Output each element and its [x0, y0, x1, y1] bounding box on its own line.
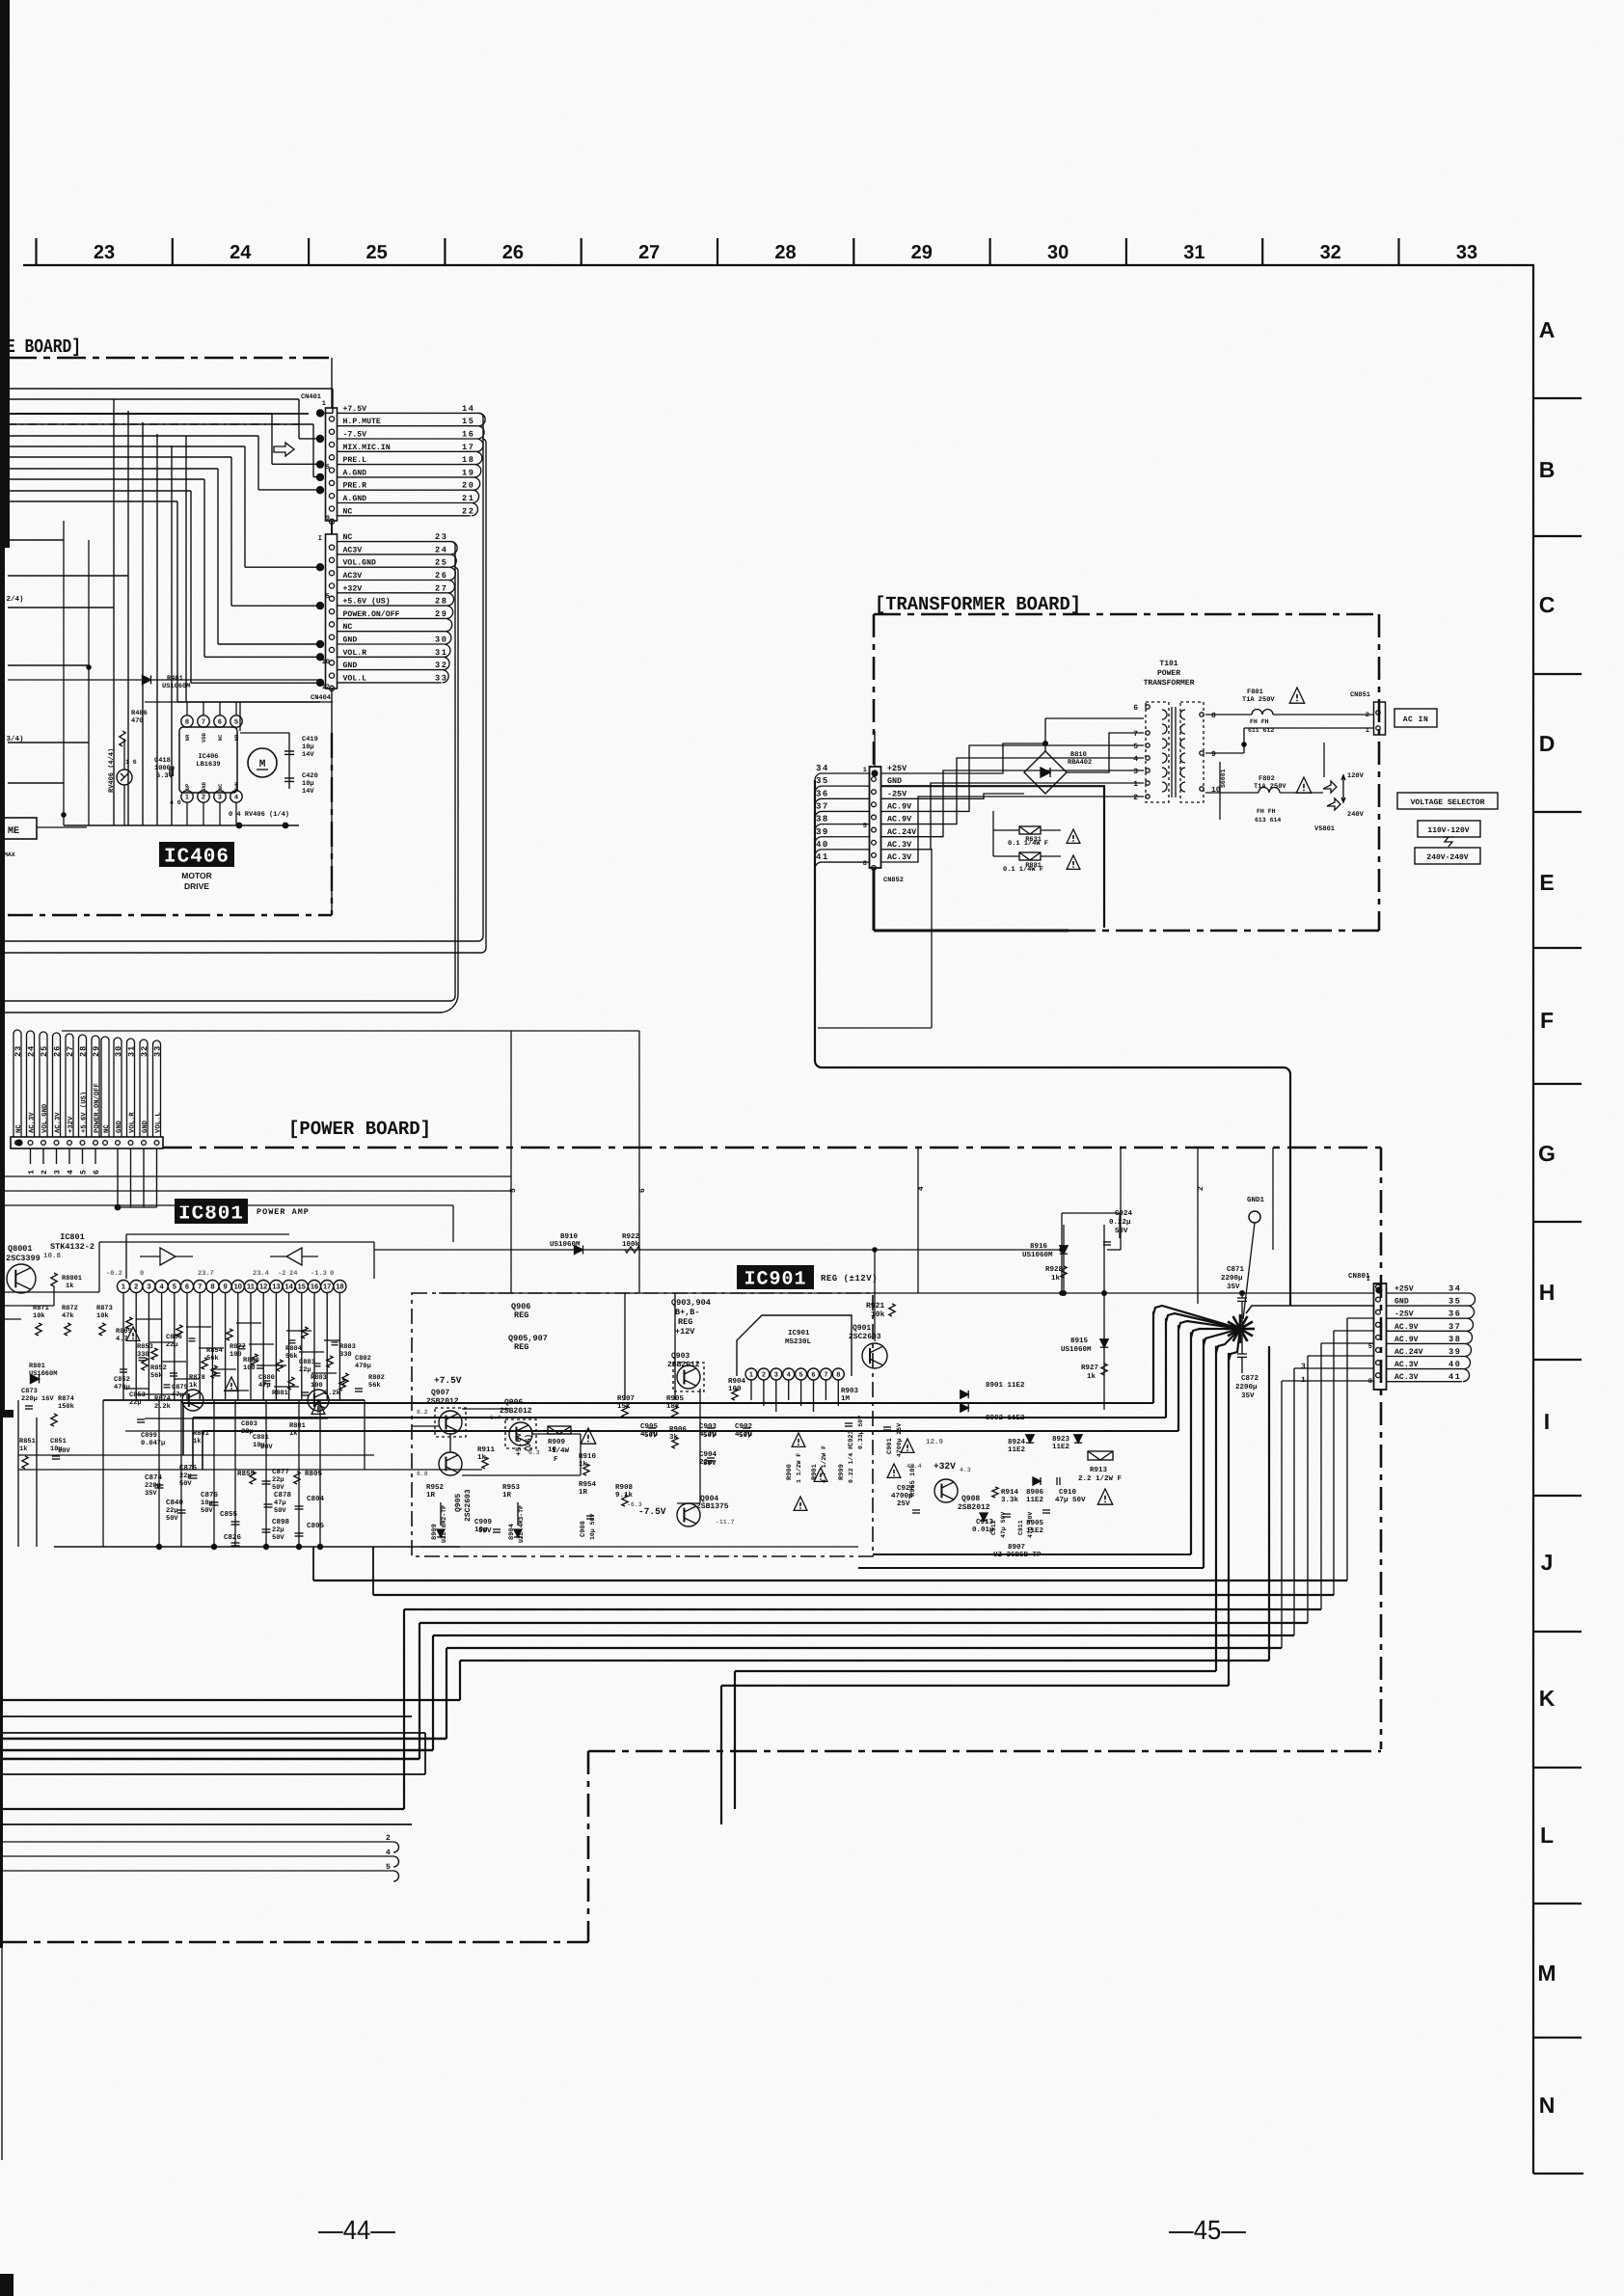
svg-text:+25V: +25V [1394, 1285, 1414, 1294]
svg-text:CN404: CN404 [311, 694, 331, 702]
svg-text:1: 1 [749, 1372, 753, 1379]
svg-text:50V: 50V [703, 1431, 717, 1440]
svg-text:AC.24V: AC.24V [1394, 1348, 1423, 1357]
svg-text:43.4: 43.4 [907, 1463, 922, 1470]
svg-text:12: 12 [322, 684, 330, 691]
svg-text:AC.3V: AC.3V [887, 840, 912, 850]
svg-text:0.1 1/4W F: 0.1 1/4W F [1008, 839, 1048, 848]
svg-text:8: 8 [836, 1372, 840, 1379]
svg-text:37: 37 [1448, 1322, 1462, 1332]
svg-text:GND: GND [201, 781, 207, 792]
svg-text:3: 3 [1301, 1363, 1306, 1371]
svg-text:4.3: 4.3 [960, 1467, 971, 1473]
svg-text:25V: 25V [897, 1499, 910, 1508]
svg-text:C908: C908 [580, 1521, 587, 1537]
svg-text:R803: R803 [339, 1343, 356, 1351]
svg-text:AC.3V: AC.3V [1394, 1373, 1419, 1382]
svg-text:GND: GND [343, 662, 358, 670]
svg-text:25: 25 [365, 242, 387, 263]
svg-text:50V: 50V [272, 1484, 284, 1492]
svg-text:AC.9V: AC.9V [1394, 1323, 1419, 1332]
svg-text:PRE.L: PRE.L [343, 456, 367, 465]
svg-text:UP: UP [184, 783, 191, 790]
svg-text:50V: 50V [274, 1507, 286, 1515]
svg-text:K: K [1539, 1686, 1556, 1711]
svg-text:NR: NR [184, 734, 191, 741]
svg-text:Q908: Q908 [961, 1495, 980, 1503]
svg-text:C879: C879 [172, 1384, 188, 1391]
svg-text:27: 27 [435, 583, 448, 593]
svg-text:18: 18 [336, 1283, 343, 1291]
svg-text:B810: B810 [1070, 751, 1087, 759]
svg-text:+5.6V (US): +5.6V (US) [343, 598, 391, 607]
svg-text:T101: T101 [1159, 660, 1177, 668]
svg-text:2: 2 [202, 795, 205, 801]
svg-text:0.047µ: 0.047µ [141, 1440, 165, 1447]
svg-text:AC.3V: AC.3V [55, 1112, 63, 1133]
svg-text:12.9: 12.9 [926, 1438, 944, 1446]
svg-text:C804: C804 [307, 1495, 325, 1503]
svg-text:CN401: CN401 [301, 393, 321, 401]
svg-text:28: 28 [435, 597, 448, 607]
svg-text:—45—: —45— [1169, 2215, 1246, 2245]
svg-text:VOL.GND: VOL.GND [343, 559, 376, 568]
svg-text:8923: 8923 [1052, 1435, 1070, 1444]
svg-text:N: N [1539, 2093, 1556, 2118]
svg-text:+32V: +32V [343, 584, 363, 593]
svg-text:5: 5 [80, 1170, 89, 1175]
svg-text:1k: 1k [1087, 1372, 1096, 1381]
svg-text:23: 23 [14, 1045, 23, 1057]
svg-text:23: 23 [435, 532, 448, 542]
svg-text:C878: C878 [274, 1491, 292, 1499]
svg-text:C923: C923 [848, 1430, 855, 1446]
svg-text:Q905: Q905 [454, 1494, 463, 1512]
svg-text:220µ: 220µ [145, 1482, 161, 1490]
svg-text:J: J [1541, 1550, 1554, 1575]
svg-text:50V: 50V [260, 1444, 273, 1451]
svg-text:R913: R913 [1090, 1466, 1108, 1474]
svg-text:613 614: 613 614 [1255, 817, 1281, 824]
svg-text:AC.24V: AC.24V [887, 827, 917, 837]
svg-text:31: 31 [1183, 242, 1204, 263]
svg-text:C922: C922 [897, 1484, 915, 1493]
svg-text:R910: R910 [579, 1452, 597, 1461]
svg-text:STK4132-2: STK4132-2 [50, 1242, 95, 1252]
svg-text:4: 4 [1133, 755, 1138, 764]
svg-text:R904: R904 [728, 1377, 746, 1386]
svg-text:1k: 1k [19, 1445, 27, 1453]
svg-text:2: 2 [134, 1283, 138, 1291]
svg-text:1: 1 [863, 767, 867, 774]
svg-text:22µ: 22µ [272, 1526, 284, 1534]
svg-text:35: 35 [1448, 1297, 1462, 1307]
svg-text:2SC2603: 2SC2603 [849, 1333, 881, 1341]
svg-text:C853: C853 [129, 1391, 146, 1399]
svg-text:14V: 14V [302, 751, 314, 759]
svg-text:GND: GND [887, 776, 902, 786]
svg-text:Q8001: Q8001 [8, 1244, 33, 1254]
svg-text:29: 29 [92, 1045, 101, 1057]
svg-text:S6001: S6001 [1220, 769, 1227, 788]
svg-text:40: 40 [1448, 1360, 1462, 1369]
svg-text:R914: R914 [1001, 1488, 1019, 1497]
svg-text:GND: GND [1394, 1298, 1409, 1307]
svg-text:R909: R909 [548, 1438, 566, 1446]
svg-text:5: 5 [863, 823, 867, 830]
svg-text:A: A [1539, 317, 1556, 342]
svg-text:C875: C875 [179, 1464, 198, 1472]
svg-text:240V: 240V [1347, 811, 1365, 819]
svg-text:-7.5V: -7.5V [638, 1506, 666, 1517]
svg-text:1: 1 [122, 1283, 125, 1291]
svg-text:17: 17 [462, 443, 475, 452]
svg-text:9: 9 [224, 1283, 228, 1291]
svg-text:C902: C902 [735, 1422, 753, 1431]
svg-text:R927: R927 [1081, 1364, 1098, 1372]
svg-text:MS230L: MS230L [785, 1337, 812, 1346]
svg-text:32: 32 [1320, 242, 1341, 263]
svg-text:R852: R852 [150, 1364, 167, 1372]
svg-text:10µ: 10µ [201, 1499, 213, 1507]
svg-text:[POWER BOARD]: [POWER BOARD] [288, 1119, 431, 1141]
svg-text:11E2: 11E2 [1026, 1526, 1044, 1535]
svg-text:+7.5V: +7.5V [343, 405, 367, 414]
svg-text:VOL.R: VOL.R [129, 1112, 137, 1133]
svg-text:C905: C905 [640, 1422, 659, 1431]
svg-text:8: 8 [185, 719, 189, 726]
svg-text:16: 16 [462, 430, 475, 440]
svg-text:I: I [1544, 1409, 1550, 1434]
svg-text:29: 29 [911, 242, 933, 263]
svg-text:33: 33 [435, 673, 448, 683]
svg-text:6.8: 6.8 [417, 1471, 428, 1477]
svg-text:3: 3 [54, 1170, 63, 1175]
svg-text:9: 9 [1211, 750, 1216, 759]
svg-text:1: 1 [28, 1170, 37, 1175]
svg-text:F802: F802 [1259, 775, 1275, 783]
svg-text:NC: NC [343, 533, 353, 542]
svg-text:21: 21 [462, 494, 475, 503]
svg-text:30: 30 [114, 1045, 123, 1057]
svg-text:R8001: R8001 [62, 1275, 82, 1283]
svg-text:R486: R486 [131, 710, 148, 717]
svg-text:1/4W: 1/4W [552, 1446, 570, 1455]
svg-text:4700µ: 4700µ [891, 1492, 913, 1500]
svg-text:0: 0 [330, 1270, 334, 1278]
svg-text:C899: C899 [141, 1432, 157, 1440]
svg-text:2: 2 [386, 1834, 391, 1843]
svg-text:POWER: POWER [1157, 669, 1180, 678]
svg-text:C909: C909 [474, 1518, 493, 1526]
svg-text:R851: R851 [19, 1438, 36, 1445]
svg-text:25: 25 [435, 558, 448, 568]
svg-text:BWH: BWH [233, 782, 240, 792]
svg-text:R801: R801 [289, 1422, 306, 1430]
svg-text:14: 14 [462, 404, 475, 414]
svg-text:-0.2: -0.2 [106, 1270, 122, 1278]
svg-text:3: 3 [218, 795, 222, 801]
svg-text:MAX: MAX [4, 851, 15, 858]
svg-text:47µ 50V: 47µ 50V [1055, 1496, 1086, 1504]
svg-text:2.2k: 2.2k [154, 1402, 171, 1411]
svg-text:35V: 35V [145, 1490, 157, 1498]
svg-text:0.33µ 50V: 0.33µ 50V [857, 1416, 864, 1449]
svg-text:2200µ: 2200µ [1221, 1274, 1243, 1283]
svg-text:3.3k: 3.3k [1001, 1496, 1019, 1504]
svg-text:PRE.R: PRE.R [343, 482, 367, 491]
svg-text:1k: 1k [189, 1381, 197, 1390]
svg-text:G: G [1538, 1141, 1556, 1166]
svg-text:NC: NC [217, 734, 224, 741]
svg-text:37: 37 [816, 801, 829, 811]
svg-text:R873: R873 [96, 1305, 113, 1312]
svg-text:33: 33 [153, 1045, 163, 1057]
svg-text:27: 27 [638, 242, 660, 263]
svg-text:8: 8 [1368, 1378, 1372, 1386]
svg-text:C910: C910 [1059, 1488, 1077, 1497]
svg-text:470: 470 [131, 717, 144, 725]
svg-text:100: 100 [311, 1382, 323, 1390]
svg-text:C871: C871 [1227, 1265, 1245, 1274]
svg-text:R901: R901 [811, 1464, 819, 1480]
svg-text:AC.9V: AC.9V [887, 801, 912, 811]
svg-text:M: M [259, 759, 266, 770]
svg-text:I: I [318, 535, 322, 543]
svg-text:R900: R900 [786, 1464, 794, 1480]
svg-text:35: 35 [816, 776, 829, 786]
svg-text:220µ 16V: 220µ 16V [21, 1395, 54, 1403]
svg-text:6: 6 [812, 1372, 816, 1379]
svg-text:C803: C803 [241, 1420, 257, 1428]
svg-text:24: 24 [435, 545, 448, 554]
svg-text:6: 6 [218, 719, 222, 726]
svg-text:30: 30 [435, 635, 448, 645]
svg-text:7: 7 [202, 719, 205, 726]
svg-text:R877: R877 [230, 1343, 246, 1351]
svg-text:100: 100 [230, 1351, 242, 1359]
svg-text:10: 10 [322, 659, 330, 666]
svg-text:NC: NC [343, 623, 353, 632]
svg-text:-25V: -25V [1394, 1310, 1414, 1319]
svg-text:23: 23 [94, 242, 115, 263]
svg-text:23.7: 23.7 [198, 1270, 214, 1278]
svg-text:11: 11 [247, 1283, 255, 1291]
svg-text:A.GND: A.GND [343, 495, 367, 503]
svg-text:6.3: 6.3 [528, 1449, 540, 1456]
svg-text:C852: C852 [114, 1376, 130, 1384]
svg-text:C912: C912 [990, 1520, 997, 1535]
svg-text:C903: C903 [699, 1422, 717, 1431]
svg-text:C872: C872 [1241, 1374, 1259, 1383]
svg-text:1R: 1R [426, 1492, 436, 1499]
svg-text:TRANSFORMER: TRANSFORMER [1144, 679, 1195, 688]
svg-text:1k: 1k [193, 1437, 201, 1445]
svg-text:US1060M: US1060M [550, 1240, 581, 1249]
svg-text:22: 22 [462, 506, 475, 516]
svg-text:R928: R928 [1045, 1265, 1064, 1274]
svg-text:34: 34 [816, 764, 829, 773]
svg-text:16: 16 [311, 1283, 318, 1291]
svg-text:US1060M: US1060M [162, 683, 190, 690]
svg-text:1: 1 [1133, 780, 1138, 789]
svg-text:5: 5 [386, 1863, 391, 1872]
svg-text:39: 39 [816, 827, 829, 837]
svg-text:1k: 1k [66, 1282, 73, 1290]
svg-text:5: 5 [326, 593, 330, 601]
svg-text:470µ: 470µ [355, 1363, 371, 1370]
svg-text:10k: 10k [871, 1310, 885, 1319]
svg-text:C851: C851 [50, 1438, 67, 1445]
svg-text:7: 7 [1133, 730, 1138, 739]
svg-text:NC: NC [343, 507, 353, 516]
svg-text:470µ: 470µ [114, 1384, 130, 1391]
svg-text:11E2: 11E2 [1008, 1445, 1026, 1454]
svg-text:C924: C924 [1115, 1209, 1133, 1218]
svg-text:H: H [1539, 1280, 1556, 1305]
svg-text:35V: 35V [1227, 1283, 1240, 1291]
svg-text:3: 3 [774, 1372, 778, 1379]
svg-text:6.2: 6.2 [417, 1409, 428, 1416]
svg-text:5: 5 [234, 719, 238, 726]
svg-text:27: 27 [66, 1045, 75, 1057]
svg-text:4: 4 [234, 795, 238, 801]
svg-text:100k: 100k [622, 1240, 640, 1249]
svg-text:120V: 120V [1347, 772, 1365, 780]
svg-text:AC3V: AC3V [343, 546, 363, 554]
svg-text:31: 31 [435, 648, 448, 658]
svg-text:5: 5 [1368, 1343, 1372, 1351]
svg-text:POWER AMP: POWER AMP [257, 1207, 310, 1217]
svg-text:6: 6 [1133, 704, 1138, 713]
svg-text:0 4 RV406 (1/4): 0 4 RV406 (1/4) [229, 810, 289, 819]
svg-text:2.2 1/2W F: 2.2 1/2W F [1078, 1474, 1123, 1483]
svg-text:IC901: IC901 [744, 1269, 806, 1291]
svg-text:50V: 50V [644, 1431, 658, 1440]
svg-text:C419: C419 [302, 736, 318, 743]
svg-text:56k: 56k [206, 1354, 219, 1363]
svg-text:CN801: CN801 [1348, 1272, 1370, 1281]
svg-text:AC.3V: AC.3V [29, 1112, 37, 1133]
svg-text:IC801: IC801 [178, 1203, 244, 1226]
svg-text:R908: R908 [615, 1483, 634, 1492]
svg-text:50V: 50V [58, 1447, 70, 1455]
svg-text:0.1 1/4W F: 0.1 1/4W F [1003, 865, 1043, 874]
svg-text:R922: R922 [622, 1232, 640, 1241]
svg-text:30: 30 [1047, 242, 1069, 263]
svg-text:14V: 14V [302, 788, 314, 796]
svg-text:8915: 8915 [1070, 1337, 1089, 1345]
svg-text:17: 17 [323, 1283, 331, 1291]
svg-text:2: 2 [41, 1170, 49, 1175]
svg-text:2SB1375: 2SB1375 [696, 1502, 729, 1511]
svg-text:R903: R903 [841, 1387, 859, 1395]
svg-text:56k: 56k [285, 1352, 298, 1361]
svg-text:5: 5 [173, 1283, 176, 1291]
svg-text:2SB2012: 2SB2012 [426, 1397, 459, 1406]
svg-text:50V: 50V [166, 1515, 178, 1523]
svg-text:M: M [1537, 1960, 1556, 1985]
svg-text:1R: 1R [579, 1489, 588, 1497]
svg-text:NR: NR [233, 734, 240, 741]
svg-text:330: 330 [339, 1351, 352, 1359]
svg-text:36: 36 [1448, 1310, 1462, 1319]
svg-text:10.8: 10.8 [43, 1252, 62, 1260]
svg-text:24: 24 [27, 1045, 37, 1057]
svg-text:7: 7 [824, 1372, 827, 1379]
svg-text:C911: C911 [1017, 1520, 1024, 1535]
svg-text:36: 36 [816, 789, 829, 798]
svg-text:R874: R874 [154, 1395, 171, 1403]
svg-text:MIX.MIC.IN: MIX.MIC.IN [343, 444, 391, 452]
svg-text:50V: 50V [478, 1526, 492, 1535]
svg-text:Q901: Q901 [853, 1324, 871, 1333]
svg-text:-7.5V: -7.5V [343, 431, 367, 440]
svg-text:FH FH: FH FH [1257, 808, 1276, 815]
svg-text:H.P.MUTE: H.P.MUTE [343, 418, 381, 426]
svg-text:8: 8 [863, 860, 867, 868]
svg-text:4: 4 [386, 1849, 391, 1857]
svg-text:8916: 8916 [1030, 1242, 1048, 1251]
svg-text:1 6: 1 6 [125, 759, 137, 766]
svg-text:POWER.ON/OFF: POWER.ON/OFF [343, 610, 400, 619]
svg-text:2: 2 [1133, 794, 1138, 802]
svg-text:10k: 10k [96, 1311, 109, 1320]
svg-text:8906: 8906 [1026, 1488, 1044, 1497]
svg-text:13: 13 [272, 1283, 280, 1291]
svg-text:[TRANSFORMER BOARD]: [TRANSFORMER BOARD] [875, 594, 1081, 616]
svg-text:1 1/2W F: 1 1/2W F [796, 1453, 802, 1483]
svg-text:Q907: Q907 [431, 1389, 449, 1397]
svg-text:110V-120V: 110V-120V [1427, 826, 1469, 835]
svg-text:C877: C877 [272, 1468, 289, 1476]
svg-text:R401: R401 [167, 675, 183, 683]
svg-text:25: 25 [40, 1045, 49, 1057]
svg-text:C901: C901 [886, 1438, 894, 1454]
svg-text:50V: 50V [201, 1507, 213, 1515]
svg-text:Q903,904: Q903,904 [671, 1298, 711, 1308]
svg-text:240V-240V: 240V-240V [1426, 853, 1468, 862]
svg-text:8901 11E2: 8901 11E2 [986, 1381, 1025, 1390]
svg-text:1000µ: 1000µ [154, 765, 175, 772]
svg-text:6: 6 [185, 1283, 189, 1291]
svg-text:GND: GND [343, 636, 358, 645]
svg-text:1: 1 [185, 795, 189, 801]
svg-text:26: 26 [53, 1045, 63, 1057]
svg-text:T1A 250V: T1A 250V [1242, 696, 1275, 704]
svg-text:C876: C876 [201, 1491, 219, 1499]
svg-text:0.22 1/4 F: 0.22 1/4 F [848, 1445, 854, 1483]
svg-text:-11.7: -11.7 [716, 1519, 735, 1526]
svg-text:50V: 50V [272, 1534, 284, 1542]
svg-text:AC.3V: AC.3V [887, 852, 912, 862]
svg-text:6.3V: 6.3V [156, 772, 174, 780]
svg-text:V5801: V5801 [1314, 825, 1335, 833]
svg-text:18: 18 [462, 455, 475, 465]
svg-text:23.4: 23.4 [253, 1270, 269, 1278]
svg-text:1R: 1R [502, 1492, 512, 1499]
svg-text:C883: C883 [299, 1359, 315, 1366]
svg-text:B: B [1539, 457, 1556, 482]
svg-text:GND1: GND1 [1247, 1196, 1265, 1204]
svg-text:VDD: VDD [201, 732, 207, 743]
svg-text:R907: R907 [617, 1394, 635, 1403]
svg-text:-2: -2 [278, 1270, 285, 1278]
svg-text:+5.6V: +5.6V [515, 1433, 524, 1456]
svg-text:22µ: 22µ [129, 1399, 142, 1407]
svg-text:34: 34 [1448, 1284, 1462, 1294]
svg-text:C874: C874 [145, 1473, 163, 1482]
